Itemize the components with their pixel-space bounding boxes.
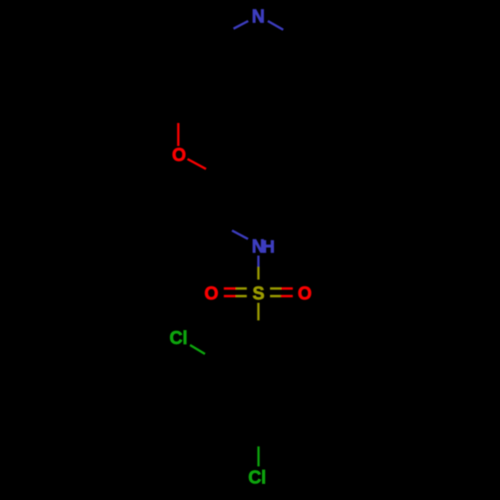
wire: bond N3-S4 (S half) [257,267,259,280]
svg-text:H: H [262,237,275,257]
svg-text:O: O [298,283,312,303]
svg-text:O: O [172,145,186,165]
wire: double bond S4=O6 upper line, S half [270,287,281,289]
wire: double bond S4=O6 upper line, O half [281,287,293,289]
svg-text:Cl: Cl [248,467,266,487]
svg-text:N: N [252,7,265,27]
wire: bond N3 up-left to chain carbon (N half) [232,231,248,240]
wire: bond Cl7 down-right to ring carbon (Cl half) [190,345,205,354]
wire: bond Cl8 up to ring carbon (Cl half) [257,446,259,466]
wire: double bond S4=O5 upper line, S half [236,287,247,289]
wire: double bond S4=O6 lower line, O half [281,295,293,297]
svg-text:O: O [204,283,218,303]
wire: double bond S4=O5 upper line, O half [224,287,236,289]
wire: bond S4 down to benzene ring carbon (S half) [257,303,259,321]
wire: bond N1 to ring C (right half, N-colored) [268,21,283,30]
wire: double bond S4=O5 lower line, O half [224,295,236,297]
wire: double bond S4=O6 lower line, S half [270,295,281,297]
wire: bond O2 down-right to chain carbon (O half) [188,159,207,169]
svg-text:S: S [252,283,264,303]
wire: bond O2 up to ring carbon (O half) [177,123,179,146]
wire: bond N3-S4 (N half) [257,256,259,267]
wire: bond N1 to ring C (left half, N-colored) [234,21,249,29]
wire: double bond S4=O5 lower line, S half [236,295,247,297]
svg-text:Cl: Cl [170,328,188,348]
